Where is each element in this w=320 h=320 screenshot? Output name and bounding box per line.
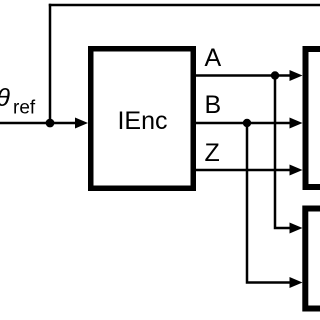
svg-text:θ: θ	[0, 84, 10, 112]
arrowhead B into lower block	[290, 277, 303, 288]
wire feedback top horizontal	[49, 4, 320, 7]
arrowhead Z into upper block	[290, 165, 303, 176]
wire A	[195, 74, 292, 77]
arrowhead into IEnc	[75, 118, 88, 129]
wire A drop to lower block	[275, 76, 292, 229]
svg-text:B: B	[205, 91, 222, 119]
wire B	[195, 122, 292, 125]
arrowhead A into lower block	[290, 223, 303, 234]
block IEnc	[91, 49, 194, 189]
node junction dot A	[271, 71, 279, 79]
svg-text:ref: ref	[13, 98, 36, 119]
node junction dot theta_ref/feedback	[46, 119, 55, 128]
node junction dot B	[243, 119, 251, 127]
block lower right (cropped at right edge)	[305, 209, 320, 309]
wire B drop to lower block	[247, 123, 292, 283]
wire Z	[195, 169, 292, 172]
block upper right (cropped at right edge)	[306, 49, 320, 187]
svg-text:A: A	[205, 44, 222, 72]
arrowhead B into upper block	[290, 118, 303, 129]
wire theta_ref input	[0, 122, 77, 125]
svg-text:IEnc: IEnc	[117, 107, 167, 135]
svg-text:Z: Z	[205, 139, 220, 167]
wire feedback left vertical	[49, 4, 52, 123]
arrowhead A into upper block	[290, 70, 303, 81]
